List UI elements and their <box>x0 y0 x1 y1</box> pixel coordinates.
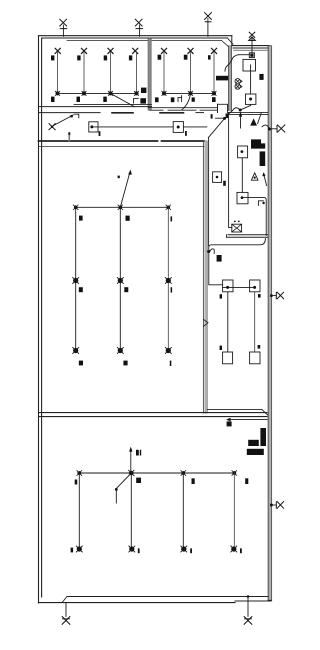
door swing bracket room1 <box>134 98 139 103</box>
wire squiggle down <box>225 55 239 71</box>
junction box C2b <box>237 192 248 203</box>
wire room2 door curve <box>182 93 191 109</box>
wire B1 to B2 <box>94 126 173 128</box>
lamp X1 above top wall <box>60 19 67 28</box>
wire room1 col3 <box>110 53 112 94</box>
node room1 J2 <box>82 91 86 95</box>
wall right of top-right room (vertical, thick gray) <box>229 46 232 111</box>
wall corridor-top <box>232 46 271 51</box>
lamp M-L4 <box>73 348 79 354</box>
switch S-N2b <box>136 478 141 483</box>
node dot hook <box>262 202 264 204</box>
wire stem lamp X1 <box>62 25 64 36</box>
node dot on drop <box>115 488 118 491</box>
wire room1 col4 <box>136 53 138 94</box>
wire bottom col1 <box>78 473 80 546</box>
wire curve hook near corridor junction <box>228 108 240 115</box>
wall socket bowtie W1 on right wall <box>262 125 285 132</box>
panel black bar room2 <box>216 76 228 81</box>
node room1 J3 <box>108 91 112 95</box>
wall socket bowtie W3 on right wall <box>270 502 284 509</box>
switch S-B4 <box>141 88 146 93</box>
switch S-D4 <box>212 97 216 102</box>
switch S-N3b <box>192 478 195 484</box>
wire from K1 to left <box>239 54 250 56</box>
corridor-strip lamp X5 <box>49 124 55 130</box>
junction box D2 <box>250 280 260 292</box>
wire stem lamp X3 <box>207 19 209 37</box>
panel bars bottom-right <box>247 428 266 455</box>
wire middle col2 upper <box>119 207 121 277</box>
lamp X4 above corridor top wall <box>249 32 255 40</box>
node room2 J2 <box>188 91 192 95</box>
junction box E1 <box>223 352 233 364</box>
triangle marker T1 <box>250 118 257 125</box>
wire B2 to corridor <box>183 126 206 128</box>
switch S-N2a <box>136 450 141 456</box>
double lamp symbol (two crossed circles) <box>235 79 242 90</box>
bottom room feed node on wall <box>226 418 267 422</box>
switch S-M2 <box>126 216 130 221</box>
node room2 J3 <box>212 91 216 95</box>
wall bottom of top-right room <box>148 104 227 112</box>
node N1 <box>77 471 82 476</box>
wire D2 to E2 <box>254 292 256 352</box>
switch S-M1 <box>79 216 83 221</box>
exterior lamp bottom-left <box>62 603 70 625</box>
node M2 <box>118 205 123 210</box>
lamp M-L5 <box>117 348 123 354</box>
junction box C2a <box>238 146 248 158</box>
switch S-N1 <box>227 421 232 426</box>
tick left of N-L1 <box>71 548 74 553</box>
stub on middle-room wall <box>68 132 70 141</box>
lamp X2 above top wall <box>135 19 142 28</box>
node room2 J1 <box>162 91 166 95</box>
triangle marker T2 <box>251 173 258 180</box>
node N2 <box>129 470 135 476</box>
room1 lamp A2 <box>81 48 86 53</box>
switch S-ML4 <box>79 361 83 366</box>
wire room1 col1 <box>57 53 59 94</box>
wire bottom col3 <box>182 473 184 546</box>
wire bottom col2 <box>130 473 132 546</box>
tick S-N1b <box>75 480 78 485</box>
arrow feed middle room <box>120 170 132 208</box>
wire middle col3 upper <box>167 207 169 277</box>
switch S-C1 <box>158 55 162 60</box>
wall between middle room and bottom room <box>39 410 268 417</box>
wire room2 col3 <box>213 53 215 94</box>
wire from U2 down with corner <box>240 104 250 110</box>
wall corridor-left (vertical, thick gray x203-207) <box>203 141 207 413</box>
switch S-A2 <box>77 55 80 60</box>
switch S-N4b <box>245 478 248 484</box>
switch S-B3 <box>103 97 107 102</box>
lamp N-L4 <box>231 546 237 552</box>
wire stem lamp X4 <box>251 38 253 53</box>
switch S-C2 <box>184 55 188 60</box>
node dot on diagonal <box>70 115 72 117</box>
lamp M-L6 <box>165 348 171 354</box>
junction box D1 <box>223 280 233 292</box>
node room1 J4 <box>134 91 138 95</box>
lamp X3 above top wall <box>205 13 212 22</box>
switch S-B1 <box>51 97 55 102</box>
room1 lamp A1 <box>55 48 60 53</box>
tick above E2 <box>258 345 261 349</box>
switch S-B5 <box>140 98 146 103</box>
junction box B2 <box>173 122 183 133</box>
junction box B1 <box>89 122 98 132</box>
wire diagonal from X5 <box>54 115 74 126</box>
junction box E2 <box>250 352 260 364</box>
lamp M-L3 <box>165 278 171 284</box>
node N3 <box>181 471 186 476</box>
switch S-A4 <box>129 55 132 60</box>
wall outer-left <box>39 37 42 604</box>
node N4 <box>232 471 237 476</box>
wall outer-right <box>268 46 271 601</box>
switch S-ML5 <box>123 361 127 366</box>
switch S-A3 <box>104 55 107 60</box>
wall socket bowtie W2 on right wall <box>270 292 284 299</box>
wall corridor-strip north line with door gaps <box>39 112 269 114</box>
wire stem lamp X2 <box>139 25 141 36</box>
wire room2 bus <box>164 92 214 94</box>
wall outer-bottom <box>39 597 272 603</box>
tick under B2 <box>185 131 187 136</box>
tick S-M3 <box>171 216 173 221</box>
middle room bus wire <box>76 206 169 208</box>
node hook on feed wire <box>207 249 214 254</box>
node dot under U2 <box>239 109 242 112</box>
wire corridor drop <box>208 138 210 246</box>
wire room2 col1 <box>163 53 165 94</box>
wire D1 to E1 <box>227 292 229 352</box>
wall bottom of top-left room <box>39 104 152 106</box>
tick above E1 <box>220 346 222 350</box>
wall outer-top <box>39 36 234 47</box>
door bracket corridor-strip <box>75 114 79 118</box>
wire feed diagonal corridor <box>208 117 226 138</box>
wire C2a to C2b <box>241 158 243 193</box>
lamp N-L1 <box>76 546 82 552</box>
tick near arrow <box>118 176 120 179</box>
wire C2b to right wall <box>242 198 266 236</box>
switch S-D6 <box>226 113 229 118</box>
exterior lamp bottom-right <box>244 595 252 624</box>
tick under D2 <box>258 294 261 298</box>
wire middle col1 upper <box>75 207 77 277</box>
arrow near T1 <box>258 112 262 123</box>
arrow feed bottom room <box>129 447 132 473</box>
switch S-D3 <box>192 97 195 101</box>
junction box C1 right corridor <box>213 172 222 183</box>
junction box U2 <box>246 94 256 104</box>
wire lower feed from wall <box>209 239 266 285</box>
node M1 <box>73 205 78 210</box>
switch S-C3 <box>208 55 211 59</box>
room1 lamp A4 <box>133 48 138 53</box>
arrow near T2 <box>262 172 266 185</box>
wire middle col2 lower <box>119 283 121 347</box>
wall below fan (right corridor lower) <box>227 235 269 238</box>
tick right of N-L4 <box>240 548 242 553</box>
wire U1 to U2 <box>250 71 252 94</box>
switch S-A1 <box>51 55 54 60</box>
tick S-ML6 <box>170 361 172 366</box>
switch S-ML2 <box>124 287 128 292</box>
switch S-R1 <box>217 255 222 262</box>
wall divider top-rooms (vertical, thick gray) <box>148 39 151 110</box>
switch S-ML1 <box>79 287 83 292</box>
hook bracket right <box>258 201 263 206</box>
switch S-D1 <box>155 97 159 102</box>
corridor-top socket K1 (box with dot) <box>249 53 254 58</box>
switch S-D2 <box>171 97 175 102</box>
room2 lamp C2 <box>188 48 193 53</box>
wall corridor-strip south (middle room top) <box>39 141 205 146</box>
wire long drop to fan <box>229 113 232 228</box>
bottom room bus wire <box>79 472 234 474</box>
switch S-B2 <box>77 97 81 102</box>
panel black bar vertical <box>260 151 266 166</box>
wire bottom col4 <box>233 473 235 546</box>
node M3 <box>166 205 171 210</box>
fan box with X <box>232 221 242 233</box>
wire middle col3 lower <box>167 283 169 347</box>
room2 lamp C1 <box>161 48 166 53</box>
node room1 J1 <box>55 91 59 95</box>
wire room2 col2 <box>190 53 192 94</box>
wire D1-D2 bus <box>223 286 255 288</box>
tick S-ML3 <box>171 287 173 292</box>
tick right of N-L2 <box>138 548 140 553</box>
room1 lamp A3 <box>108 48 113 53</box>
tick under D1 <box>220 294 222 298</box>
switch S-D5 <box>211 114 213 118</box>
room2 lamp C3 <box>211 48 216 53</box>
door swing bump on corridor-left wall <box>204 320 209 327</box>
tick under B1 <box>99 131 101 136</box>
wire drop diagonal <box>116 473 131 503</box>
tick right of N-L3 <box>190 548 192 553</box>
lamp N-L3 <box>181 546 187 552</box>
wire middle col1 lower <box>75 283 77 347</box>
door swing bracket room2 <box>178 96 182 102</box>
wire room1 bus <box>58 92 137 94</box>
junction box U1 <box>243 59 256 71</box>
wire room1 door diagonal <box>111 93 135 106</box>
panel black L-blob <box>251 139 265 148</box>
wire room1 col2 <box>83 53 85 94</box>
switch S-K2 <box>259 74 263 80</box>
lamp N-L2 <box>129 546 135 552</box>
tick under C1 <box>223 181 226 186</box>
lamp M-L2 <box>117 278 123 284</box>
lamp M-L1 <box>73 278 79 284</box>
arrow up at corridor junction <box>239 112 242 128</box>
